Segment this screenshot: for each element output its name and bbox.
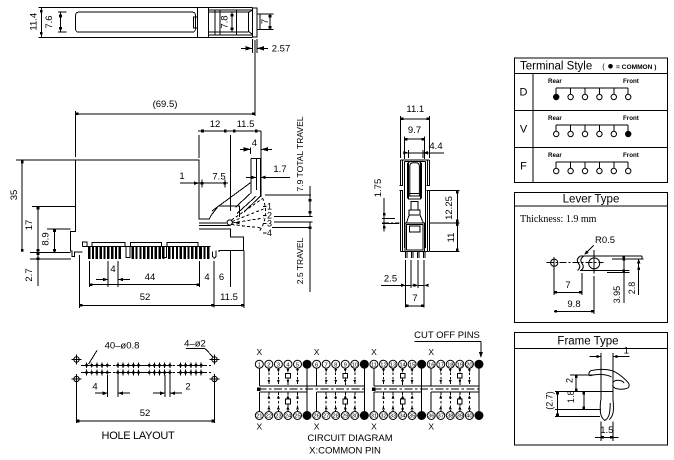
dimension 2.5 (pins) bbox=[381, 284, 411, 286]
svg-text:CIRCUIT DIAGRAM: CIRCUIT DIAGRAM bbox=[307, 433, 392, 444]
svg-text:29: 29 bbox=[342, 414, 348, 420]
svg-text:40–ø0.8: 40–ø0.8 bbox=[105, 341, 140, 352]
svg-text:2.5 TRAVEL: 2.5 TRAVEL bbox=[295, 238, 305, 285]
svg-text:2.8: 2.8 bbox=[627, 282, 637, 295]
svg-text:23: 23 bbox=[275, 414, 281, 420]
lever second hole bbox=[589, 258, 600, 269]
svg-text:7: 7 bbox=[325, 362, 328, 368]
hole layout: corner holes 4-diam2 bbox=[74, 357, 79, 362]
lever tip break curve bbox=[577, 256, 580, 270]
svg-text:R0.5: R0.5 bbox=[595, 235, 615, 246]
circuit diagram: center dash-dot line bbox=[258, 388, 366, 390]
side view: lever solid bbox=[236, 158, 261, 207]
dimension 1.5 bbox=[600, 422, 602, 442]
svg-text:11: 11 bbox=[371, 362, 377, 368]
dimension 12.25 and 11 bbox=[430, 190, 460, 192]
dimension 7.9 total travel line bbox=[309, 186, 311, 216]
front view: knob inner bbox=[407, 224, 423, 250]
svg-text:X: X bbox=[371, 422, 377, 432]
svg-text:27: 27 bbox=[323, 414, 329, 420]
svg-text:1: 1 bbox=[624, 346, 629, 357]
svg-text:15: 15 bbox=[409, 362, 415, 368]
dimension 2.57 bbox=[251, 39, 253, 53]
svg-text:33: 33 bbox=[390, 414, 396, 420]
terminal style box frame bbox=[514, 58, 667, 182]
svg-text:1.7: 1.7 bbox=[273, 164, 286, 175]
svg-text:28: 28 bbox=[332, 414, 338, 420]
lever type box frame bbox=[514, 193, 667, 323]
svg-text:2: 2 bbox=[267, 362, 270, 368]
lever position rays (dashed) bbox=[232, 199, 263, 220]
svg-text:Thickness: 1.9 mm: Thickness: 1.9 mm bbox=[520, 214, 597, 225]
lever centerline bbox=[546, 262, 603, 264]
svg-text:D: D bbox=[520, 87, 528, 99]
svg-text:4.4: 4.4 bbox=[429, 141, 442, 152]
dimension 2.8 bbox=[638, 259, 640, 295]
svg-text:9.8: 9.8 bbox=[567, 299, 580, 310]
svg-text:35: 35 bbox=[409, 414, 415, 420]
svg-text:X: X bbox=[428, 347, 434, 357]
front view: side notches bbox=[399, 186, 402, 191]
svg-text:X: X bbox=[314, 347, 320, 357]
dimension 7.8 bbox=[231, 12, 233, 32]
frame type box frame bbox=[514, 333, 667, 446]
svg-text:7.9 TOTAL TRAVEL: 7.9 TOTAL TRAVEL bbox=[295, 116, 305, 191]
svg-text:30: 30 bbox=[352, 414, 358, 420]
svg-text:14: 14 bbox=[399, 362, 406, 368]
circuit diagram: bottom bus bbox=[259, 391, 307, 393]
svg-text:24: 24 bbox=[285, 414, 292, 420]
dimension 12 bbox=[198, 135, 200, 158]
top view: lever stub right bbox=[257, 13, 260, 15]
svg-text:11.5: 11.5 bbox=[220, 292, 238, 303]
dimension 9.8 bbox=[593, 276, 595, 314]
svg-text:Front: Front bbox=[623, 78, 639, 85]
frame hook: strip right edge bbox=[612, 378, 614, 400]
dimension 17 bbox=[37, 207, 39, 253]
svg-text:11.4: 11.4 bbox=[29, 13, 40, 31]
dimension 4 (pin pitch) bbox=[107, 261, 109, 287]
side view: pin group covers bbox=[92, 243, 125, 247]
svg-text:10: 10 bbox=[352, 362, 358, 368]
frame hook: left break scallop bbox=[589, 371, 591, 376]
svg-text:7.6: 7.6 bbox=[44, 15, 55, 28]
front view: knob outer bbox=[405, 223, 425, 252]
dimension 11.4 bbox=[40, 8, 42, 38]
frame hook: sheet top edge and lip bbox=[591, 369, 629, 389]
svg-text:X: X bbox=[314, 422, 320, 432]
frame hook: lip inner curve bbox=[613, 380, 624, 383]
svg-text:44: 44 bbox=[145, 272, 156, 283]
front view: outer body bbox=[400, 160, 429, 252]
svg-text:19: 19 bbox=[457, 362, 463, 368]
side view: pin comb baseline bbox=[83, 245, 211, 247]
svg-text:= COMMON ): = COMMON ) bbox=[616, 64, 656, 71]
dimension 8.9 bbox=[54, 229, 56, 252]
dimension 35 bbox=[21, 160, 23, 252]
frame ref lines bbox=[570, 374, 594, 376]
front view centerline bbox=[382, 222, 400, 224]
svg-text:38: 38 bbox=[447, 414, 453, 420]
svg-text:11.5: 11.5 bbox=[237, 119, 255, 130]
svg-text:32: 32 bbox=[380, 414, 386, 420]
front view pin ext lines bbox=[405, 260, 407, 308]
side view: cover seam diagonal bbox=[212, 183, 251, 212]
pivot circle bbox=[227, 220, 232, 225]
front view: slot rails (thick) bbox=[407, 163, 409, 199]
svg-text:34: 34 bbox=[399, 414, 406, 420]
svg-text:Frame Type: Frame Type bbox=[557, 336, 618, 348]
dimension 52 (side view) bbox=[78, 255, 80, 308]
svg-text:(69.5): (69.5) bbox=[153, 99, 178, 110]
top view: inner slot (7.6 track) bbox=[76, 12, 196, 32]
lever bar bbox=[580, 255, 642, 257]
dimension 4.4 bbox=[407, 150, 409, 158]
svg-text:7: 7 bbox=[260, 19, 271, 24]
top view: neck bbox=[243, 9, 253, 11]
svg-text:52: 52 bbox=[140, 408, 151, 419]
svg-text:4: 4 bbox=[252, 138, 257, 149]
front view: slider flare bbox=[406, 215, 423, 223]
svg-text:36: 36 bbox=[428, 414, 434, 420]
svg-text:V: V bbox=[520, 124, 528, 136]
dimension 2 (hole pitch) bbox=[164, 375, 166, 397]
side view: left dim ext lines bbox=[16, 159, 76, 161]
dimension 1.75 bbox=[382, 218, 395, 220]
svg-text:31: 31 bbox=[371, 414, 377, 420]
svg-text:3: 3 bbox=[267, 219, 272, 229]
front view: rail bottom bridge bbox=[408, 193, 421, 195]
svg-text:11.1: 11.1 bbox=[406, 104, 424, 115]
svg-text:1.8: 1.8 bbox=[566, 391, 576, 404]
dimension (2.7) bbox=[557, 391, 559, 416]
dimension 7.5 bbox=[224, 180, 226, 188]
dimension 7.6 bbox=[58, 11, 66, 13]
svg-text:HOLE LAYOUT: HOLE LAYOUT bbox=[102, 430, 175, 442]
svg-text:Rear: Rear bbox=[548, 115, 562, 122]
svg-text:Lever Type: Lever Type bbox=[563, 194, 620, 206]
front view: slider stem bbox=[411, 202, 418, 211]
svg-text:16: 16 bbox=[428, 362, 434, 368]
svg-text:12: 12 bbox=[380, 362, 386, 368]
circuit diagram: top bus bbox=[259, 385, 364, 387]
svg-text:1.75: 1.75 bbox=[373, 179, 384, 198]
svg-text:Terminal Style: Terminal Style bbox=[520, 61, 592, 73]
svg-text:X:COMMON PIN: X:COMMON PIN bbox=[309, 446, 381, 457]
dimension 11.5 (bottom right) bbox=[243, 251, 245, 309]
top view: bracket tab bbox=[194, 17, 198, 28]
svg-text:8.9: 8.9 bbox=[41, 232, 52, 245]
svg-text:39: 39 bbox=[457, 414, 463, 420]
svg-text:7: 7 bbox=[565, 280, 570, 291]
svg-text:12.25: 12.25 bbox=[444, 196, 455, 220]
svg-text:3.95: 3.95 bbox=[612, 286, 622, 304]
top view: head mid section bbox=[209, 9, 243, 11]
travel extension lines right bbox=[265, 194, 311, 196]
svg-text:37: 37 bbox=[438, 414, 444, 420]
svg-text:25: 25 bbox=[294, 414, 300, 420]
dimension 7 (pins) bbox=[406, 305, 425, 307]
svg-text:X: X bbox=[371, 347, 377, 357]
svg-text:X: X bbox=[256, 422, 262, 432]
top view: head bracket bbox=[197, 8, 208, 38]
svg-text:4: 4 bbox=[92, 382, 97, 393]
svg-text:35: 35 bbox=[9, 190, 20, 201]
svg-text:7: 7 bbox=[412, 293, 417, 304]
top view: end cap bbox=[252, 8, 257, 37]
side view: left end tab bbox=[83, 242, 87, 246]
svg-text:52: 52 bbox=[140, 292, 151, 303]
hole layout: 40 small holes bbox=[85, 364, 88, 367]
svg-text:9: 9 bbox=[344, 362, 347, 368]
frame hook: strip left edge bbox=[600, 365, 602, 399]
top view: switch body outline bbox=[39, 7, 253, 9]
svg-text:2.57: 2.57 bbox=[272, 44, 291, 55]
svg-text:3: 3 bbox=[277, 362, 280, 368]
svg-text:12: 12 bbox=[210, 119, 221, 130]
hole layout: centerlines bbox=[81, 364, 211, 366]
svg-text:4: 4 bbox=[204, 272, 209, 283]
dimension 9.7 bbox=[403, 137, 405, 160]
dimension 4 (hole group gap) bbox=[107, 375, 109, 397]
dimension 3.95 bbox=[623, 256, 625, 303]
svg-text:1: 1 bbox=[179, 171, 184, 182]
svg-text:11: 11 bbox=[446, 233, 457, 243]
circuit diagram: pins bbox=[255, 360, 263, 368]
front view: inner frame lines bbox=[401, 160, 403, 252]
svg-text:20: 20 bbox=[466, 362, 472, 368]
svg-text:26: 26 bbox=[313, 414, 319, 420]
front view: inner slot track bbox=[410, 163, 420, 196]
side view: solder pins (black teeth) bbox=[88, 246, 90, 258]
svg-text:7.5: 7.5 bbox=[212, 172, 225, 183]
frame hook: teardrop tip bbox=[600, 400, 610, 421]
svg-text:8: 8 bbox=[334, 362, 337, 368]
svg-text:18: 18 bbox=[447, 362, 453, 368]
svg-text:X: X bbox=[256, 347, 262, 357]
svg-text:Rear: Rear bbox=[548, 152, 562, 159]
dimension 4 (lever top) bbox=[250, 148, 252, 155]
svg-text:2: 2 bbox=[565, 378, 575, 383]
dimension (69.5) overall length bbox=[75, 111, 77, 157]
svg-text:21: 21 bbox=[256, 414, 262, 420]
dimension 52 (hole layout) bbox=[76, 384, 78, 423]
svg-text:(2.7): (2.7) bbox=[544, 391, 554, 410]
svg-text:5: 5 bbox=[296, 362, 299, 368]
dimension 7 (lever width) bbox=[260, 13, 274, 15]
front view: pins bbox=[405, 251, 407, 258]
svg-text:4: 4 bbox=[110, 264, 115, 275]
frame hook: sheet bottom edge bbox=[590, 374, 612, 377]
dimension 44 bbox=[89, 261, 91, 287]
dimension 2.7 bbox=[37, 253, 39, 286]
lever right ext lines bbox=[628, 269, 630, 271]
svg-text:1: 1 bbox=[258, 362, 261, 368]
svg-text:6: 6 bbox=[219, 272, 224, 283]
svg-text:X: X bbox=[428, 422, 434, 432]
svg-text:2: 2 bbox=[185, 382, 190, 393]
svg-text:Front: Front bbox=[623, 115, 639, 122]
svg-text:22: 22 bbox=[266, 414, 272, 420]
dimension 1.7 bbox=[246, 176, 256, 178]
dimension 7 (lever) bbox=[553, 267, 555, 295]
dimension 2 (frame) bbox=[575, 375, 577, 392]
svg-text:17: 17 bbox=[438, 362, 444, 368]
svg-text:6: 6 bbox=[315, 362, 318, 368]
dimension 11.5 top bbox=[260, 131, 262, 197]
side view: right body block bbox=[199, 223, 244, 252]
svg-text:17: 17 bbox=[24, 220, 35, 231]
svg-text:2.7: 2.7 bbox=[24, 268, 35, 281]
svg-text:7.8: 7.8 bbox=[220, 15, 231, 28]
svg-text:CUT OFF PINS: CUT OFF PINS bbox=[414, 330, 480, 341]
lever hole circle bbox=[551, 259, 558, 266]
svg-text:2.5: 2.5 bbox=[384, 274, 397, 285]
dimension 11.1 bbox=[399, 116, 401, 158]
lever position dashed arc bbox=[260, 198, 266, 231]
svg-text:40: 40 bbox=[466, 414, 472, 420]
dimension 1 (lever) bbox=[201, 180, 203, 188]
dimension 1 (frame) bbox=[600, 353, 602, 365]
svg-text:4: 4 bbox=[267, 228, 272, 238]
dimension 4 and 6 (right) bbox=[213, 261, 215, 308]
lever position labels 1-4 bbox=[263, 206, 267, 208]
side view: right mounting foot bbox=[212, 250, 219, 258]
svg-text:1.5: 1.5 bbox=[600, 425, 613, 436]
svg-text:Front: Front bbox=[623, 152, 639, 159]
svg-text:13: 13 bbox=[390, 362, 396, 368]
svg-text:F: F bbox=[520, 161, 527, 173]
svg-text:4–ø2: 4–ø2 bbox=[184, 339, 206, 350]
svg-text:Rear: Rear bbox=[548, 78, 562, 85]
side view: white gap pins bbox=[126, 246, 130, 257]
svg-text:9.7: 9.7 bbox=[408, 125, 421, 136]
side view: main body outline bbox=[76, 160, 240, 219]
dimension 1.8 bbox=[583, 391, 585, 409]
